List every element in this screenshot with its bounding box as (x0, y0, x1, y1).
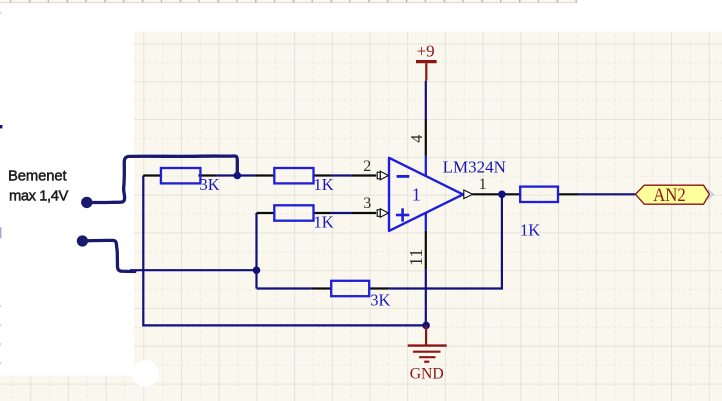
svg-text:AN2: AN2 (653, 186, 686, 206)
svg-text:1K: 1K (314, 175, 334, 194)
svg-text:1K: 1K (314, 212, 334, 231)
svg-text:3K: 3K (200, 175, 220, 194)
svg-text:11: 11 (406, 249, 426, 266)
svg-text:1: 1 (412, 185, 421, 205)
svg-text:LM324N: LM324N (443, 157, 506, 176)
svg-text:1K: 1K (520, 220, 540, 239)
svg-text:3K: 3K (370, 290, 390, 309)
svg-text:1: 1 (479, 176, 487, 193)
svg-text:4: 4 (407, 135, 426, 143)
svg-text:+9: +9 (417, 41, 435, 60)
svg-text:Bemenet: Bemenet (8, 168, 67, 184)
svg-text:GND: GND (410, 365, 444, 382)
svg-text:3: 3 (363, 195, 371, 212)
svg-text:max 1,4V: max 1,4V (9, 188, 68, 204)
svg-text:2: 2 (363, 158, 371, 175)
